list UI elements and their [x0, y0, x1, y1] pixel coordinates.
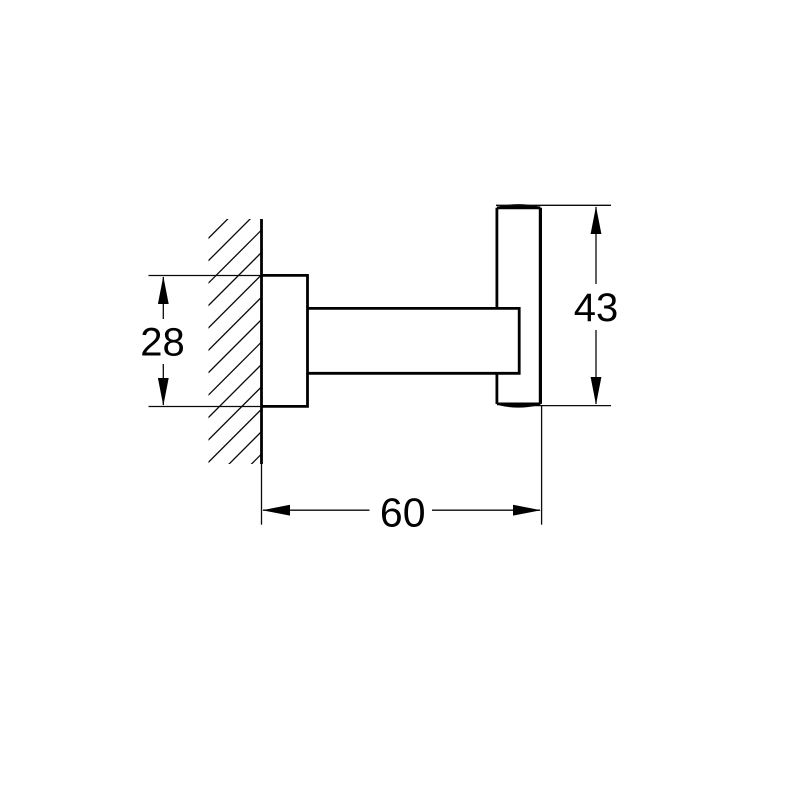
left edge upper segment: [495, 208, 498, 308]
dimension 60: arrow right: [513, 505, 541, 516]
dimension 43: arrow down: [591, 377, 602, 405]
arm (horizontal bar): [308, 308, 519, 373]
wall mounting plate: [262, 275, 308, 406]
top edge with slight dome: [497, 206, 541, 208]
dimension 28: arrow up: [158, 276, 169, 304]
dimension 43: dimension line: [595, 207, 597, 404]
dimension 43: extension lines: [496, 205, 611, 405]
dimension 60: dimension line: [263, 509, 540, 511]
dimension 43: arrow up: [591, 206, 602, 234]
svg-text:28: 28: [140, 321, 185, 365]
dimension 60: arrow left: [262, 505, 290, 516]
left edge lower segment: [495, 373, 498, 404]
svg-text:60: 60: [380, 489, 426, 535]
dimension 28: dimension line: [162, 277, 164, 405]
svg-text:43: 43: [574, 286, 619, 330]
wall hatching: [205, 182, 265, 511]
dimension 28: arrow down: [158, 378, 169, 406]
dimension 28: extension lines: [149, 276, 262, 407]
hook end bar: [497, 206, 541, 407]
bottom edge with slight dome: [497, 404, 541, 406]
dimension 60: extension lines: [262, 406, 542, 525]
wall face line: [260, 219, 263, 464]
right edge: [539, 208, 542, 404]
